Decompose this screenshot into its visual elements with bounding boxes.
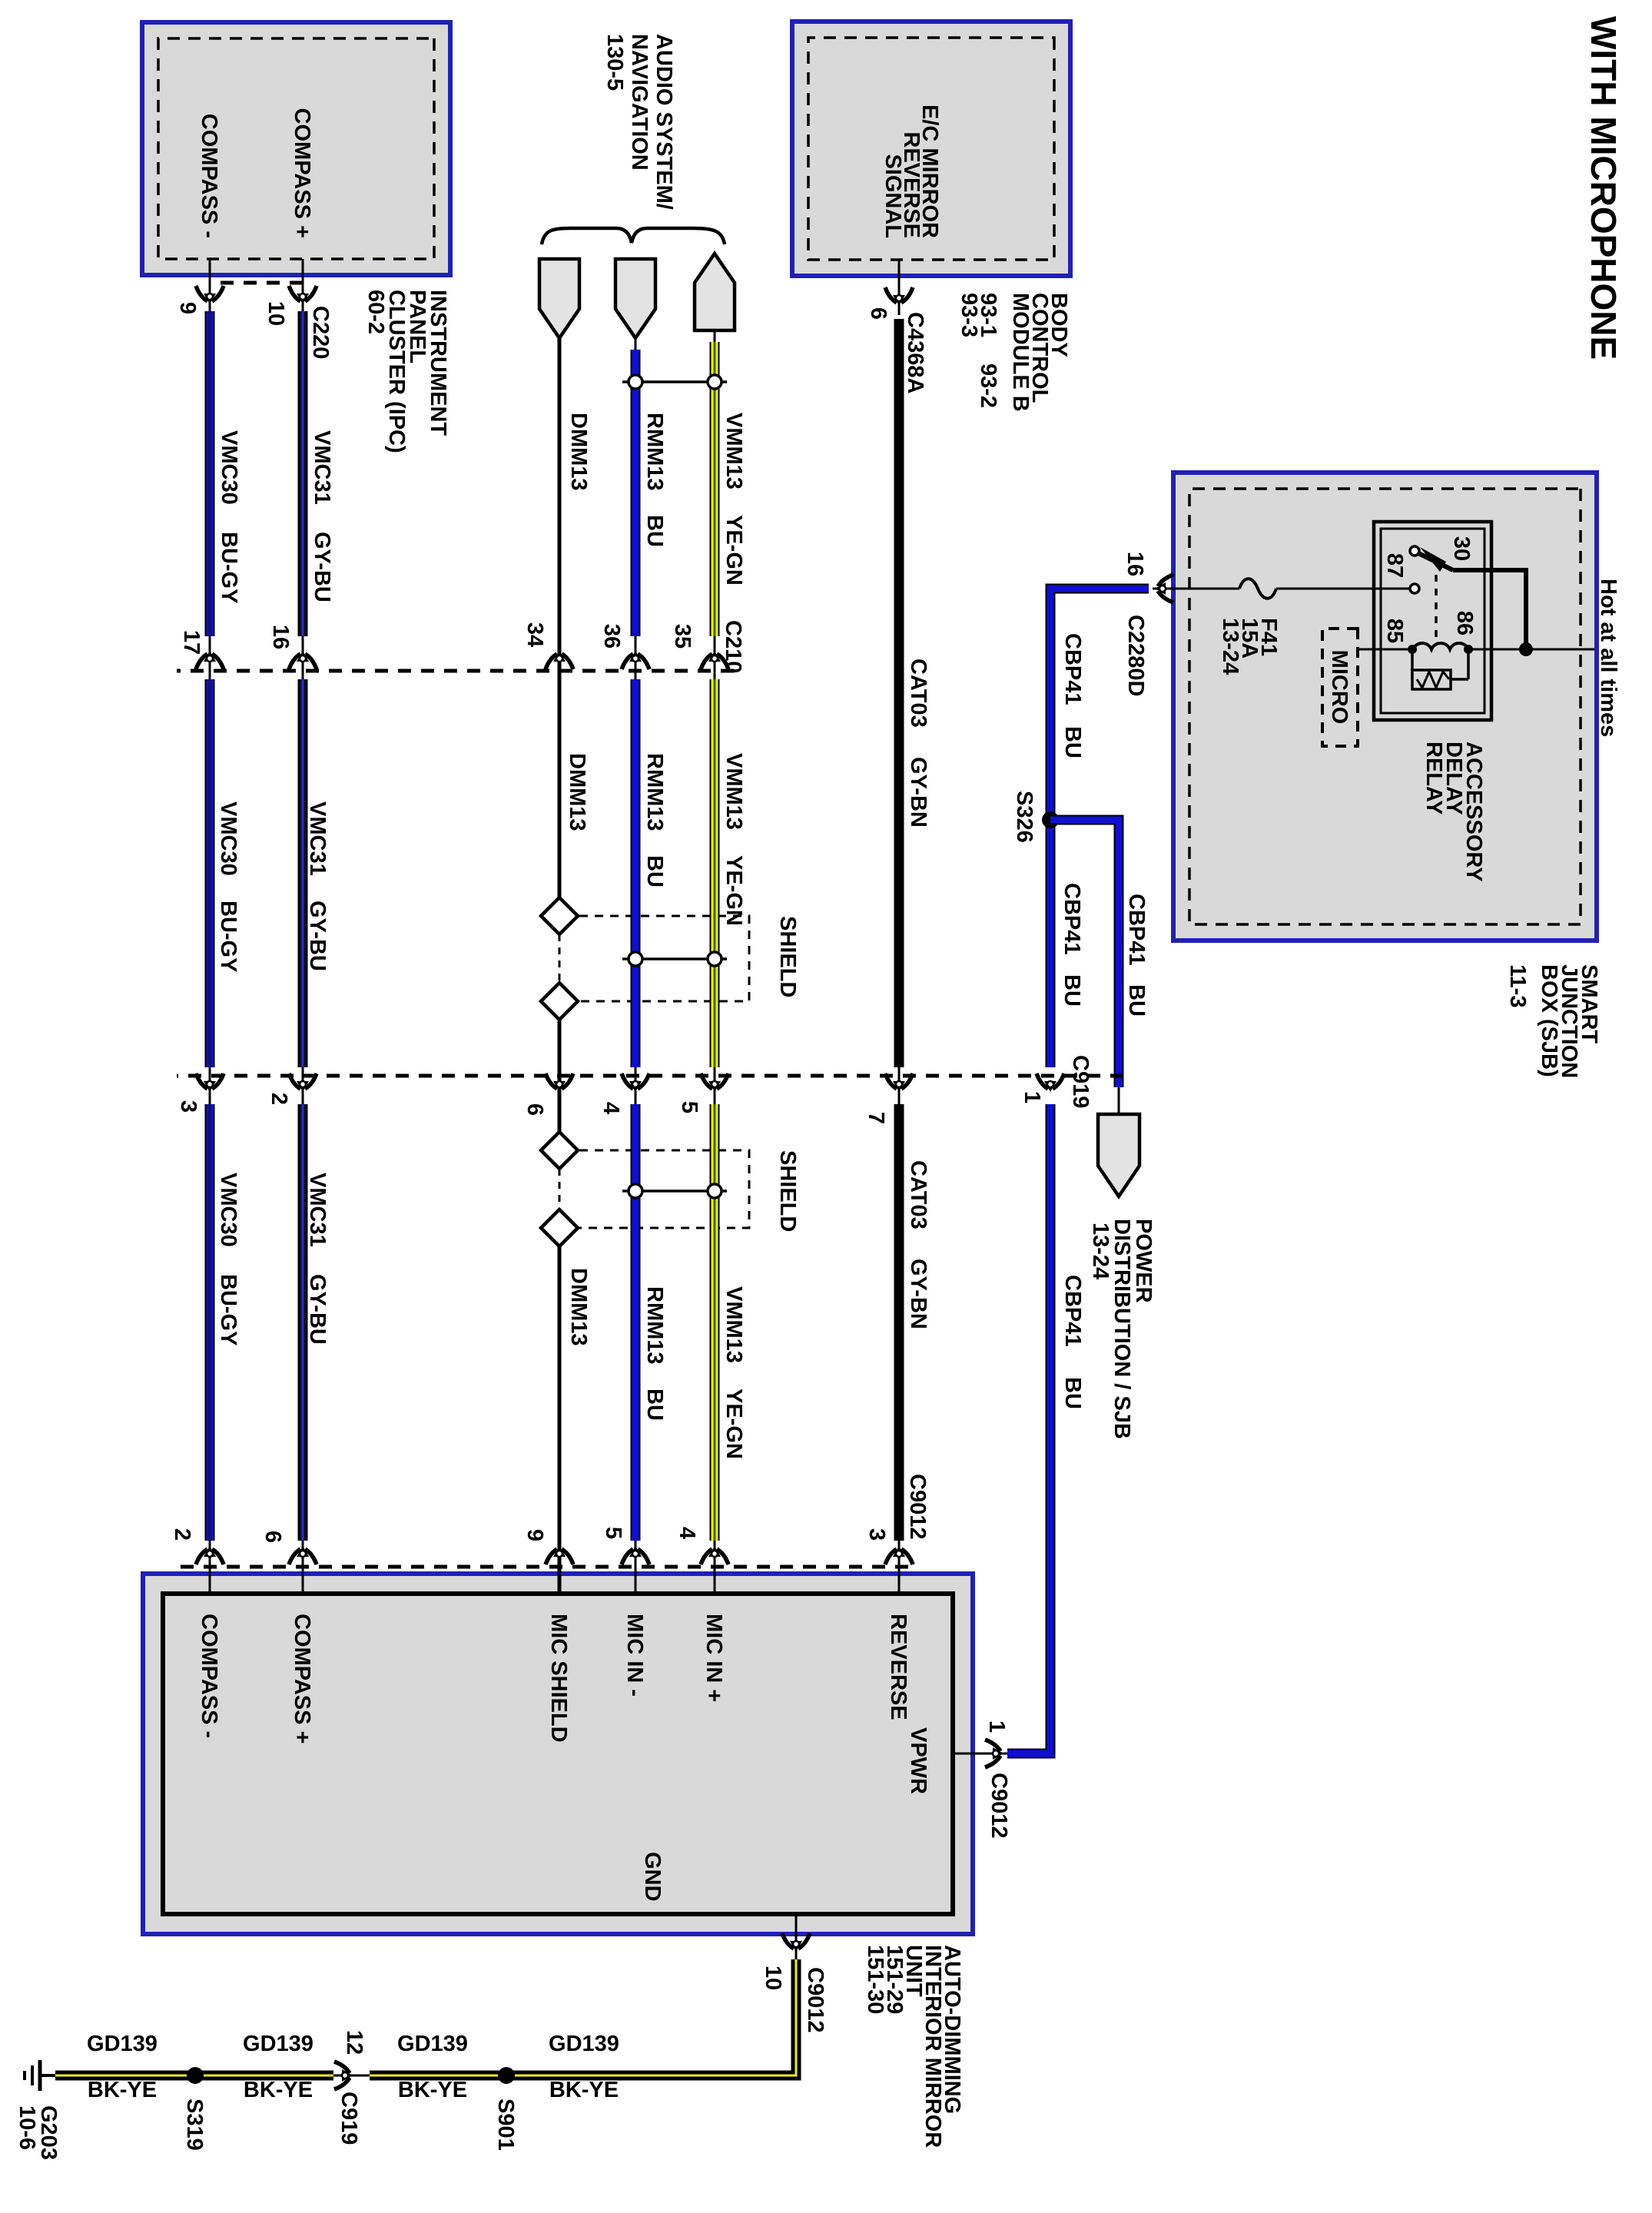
svg-text:16: 16 [268,625,293,649]
svg-text:SIGNAL: SIGNAL [881,154,905,238]
wire VMC30 BU-GY segment 2 [205,679,215,1067]
connector arrow C220 pin 10 [289,286,317,304]
svg-text:BU-GY: BU-GY [217,532,241,603]
svg-text:MODULE B: MODULE B [1008,293,1033,412]
splice S901 [498,2067,515,2084]
connector arrow C220 pin 9 [196,286,224,304]
svg-text:SHIELD: SHIELD [775,916,800,997]
svg-text:VMC30: VMC30 [216,801,241,876]
svg-text:BU: BU [1060,974,1084,1007]
wire RMM13 BU segment 3 [631,1104,641,1541]
svg-text:DMM13: DMM13 [565,753,589,831]
wire lead at C919 pin 3 [209,1067,211,1104]
relay switch blade [1417,552,1453,570]
svg-text:GY-BN: GY-BN [906,757,930,828]
wire lead into mirror pin 2 [209,1541,211,1594]
svg-text:4: 4 [599,1102,623,1114]
svg-text:1: 1 [1020,1091,1044,1103]
fuse F41 15A [1239,579,1276,599]
connector C9012 dashed line [177,1565,908,1569]
wire coil to micro [1358,649,1412,651]
connector arrow C210 pin 16 [289,651,317,669]
wire lead VPWR into mirror box [951,1753,1007,1755]
wire lead at C210 pin 17 [209,636,211,679]
wire DMM13 segment 2 [558,679,562,898]
svg-text:C9012: C9012 [803,1967,828,2032]
svg-text:16: 16 [1123,552,1147,576]
svg-text:3: 3 [176,1100,201,1113]
wire CAT03 GY-BN segment 2 [894,1104,904,1541]
wire RMM13 BU segment 2 [631,679,641,1067]
MICRO dashed box [1322,629,1358,746]
relay switch terminal 30 [1410,546,1419,556]
splice S319 [187,2067,204,2084]
svg-text:13-24: 13-24 [1218,618,1242,675]
svg-text:C919: C919 [337,2092,361,2145]
svg-text:93-3: 93-3 [957,293,981,337]
svg-text:GD139: GD139 [243,2032,313,2056]
svg-text:151-30: 151-30 [863,1945,887,2014]
svg-text:BU: BU [642,1389,667,1421]
svg-text:YE-GN: YE-GN [722,1389,746,1459]
svg-text:GND: GND [640,1852,665,1901]
connector arrow C919 pin 7 [885,1073,913,1092]
svg-text:MICRO: MICRO [1327,650,1352,725]
wire lead to power distribution connector [1118,1087,1120,1116]
connector arrow C9012 pin 3 [885,1546,913,1564]
wire lead at C919 pin 2 [302,1067,304,1104]
component box INSTRUMENT PANEL CLUSTER (IPC) [142,22,450,275]
svg-text:S319: S319 [182,2099,207,2151]
wire VMM13 YE-GN segment 2 [710,679,720,1067]
wire lead at C210 pin 16 [302,636,304,679]
svg-text:5: 5 [601,1527,625,1539]
wire lead into mirror pin 5 [635,1541,637,1594]
svg-text:GY-BU: GY-BU [305,1274,330,1345]
svg-text:MIC IN +: MIC IN + [702,1614,726,1702]
svg-text:11-3: 11-3 [1505,964,1530,1007]
wire lead into mirror pin 3 [898,1541,901,1594]
svg-text:C9012: C9012 [987,1773,1011,1838]
connector arrow C4368A pin 6 [885,287,913,306]
connector C220 dashed line [210,281,303,285]
wire relay switch to hot feed [1453,570,1526,649]
svg-text:YE-GN: YE-GN [722,855,746,926]
svg-text:CBP41: CBP41 [1060,633,1085,705]
svg-text:VMM13: VMM13 [722,1286,746,1363]
wire VMC31 GY-BU segment 3 [298,1104,308,1541]
svg-text:COMPASS -: COMPASS - [197,114,221,238]
svg-text:DMM13: DMM13 [566,413,591,491]
wire lead BCM exit [898,260,901,315]
svg-text:VMC31: VMC31 [305,1173,330,1247]
connector from audio system RMM13 [615,259,655,338]
svg-text:S901: S901 [493,2099,518,2151]
brace audio system [542,228,725,244]
svg-text:C919: C919 [1068,1055,1093,1108]
svg-text:COMPASS -: COMPASS - [197,1614,221,1738]
wire lead into mirror pin 6 [302,1541,304,1594]
svg-text:17: 17 [179,630,204,655]
wire VMC30 BU-GY segment 1 [205,311,215,636]
svg-text:C210: C210 [721,620,745,673]
relay switch terminal 87 [1410,584,1419,593]
connector arrow C9012 pin 10 [782,1933,810,1952]
connector arrow C919 pin 2 [289,1073,317,1092]
shield diamond 1 [541,897,578,934]
connector from audio system VMM13 [695,254,735,330]
svg-text:10-6: 10-6 [15,2105,39,2150]
svg-text:VMM13: VMM13 [722,753,746,830]
svg-text:85: 85 [1382,619,1407,643]
connector arrow C919 pin 4 [622,1073,649,1092]
connector from audio system DMM13 [539,259,579,338]
svg-text:BK-YE: BK-YE [88,2078,157,2102]
connector arrow C210 pin 34 [546,651,573,669]
wire lead at C919 pin 7 [898,1067,901,1104]
shield diamond 2 [541,983,578,1020]
shield drain link [622,380,727,383]
wire lead into mirror pin 4 [714,1541,716,1594]
svg-text:2: 2 [267,1093,291,1105]
svg-text:CAT03: CAT03 [906,1160,930,1229]
svg-text:GD139: GD139 [87,2032,158,2056]
wire VMM13 YE-GN segment 3 [710,1104,720,1541]
wire RMM13 BU segment 1 [631,350,641,636]
connector C919 pin 1 arrow [1037,1073,1064,1092]
connector arrow C9012 pin 9 [546,1546,573,1564]
svg-text:COMPASS +: COMPASS + [290,1614,314,1744]
svg-text:86: 86 [1452,611,1477,635]
relay coil L1 [1413,643,1468,649]
relay actuation dashed link [1435,575,1438,644]
svg-text:RMM13: RMM13 [642,753,667,831]
wire DMM13 segment 3 [558,1020,562,1104]
svg-text:VMC31: VMC31 [310,430,334,505]
svg-text:C2280D: C2280D [1123,615,1148,696]
svg-text:35: 35 [670,624,695,649]
svg-text:12: 12 [342,2030,367,2055]
junction hot feed [1519,642,1533,656]
svg-text:9: 9 [522,1529,547,1541]
connector arrow C9012 pin 2 [196,1546,224,1564]
svg-text:CBP41: CBP41 [1060,1275,1085,1347]
connector arrow C919 pin 12 [334,2062,353,2089]
svg-text:BU-GY: BU-GY [216,901,241,972]
svg-text:93-2: 93-2 [976,363,1000,408]
svg-text:VMC31: VMC31 [305,801,330,876]
svg-text:MIC IN -: MIC IN - [622,1614,647,1697]
wire VMC30 BU-GY segment 3 [205,1104,215,1541]
connector arrow C9012 pin 5 [622,1546,649,1564]
svg-text:NAVIGATION: NAVIGATION [627,34,652,171]
svg-text:6: 6 [260,1531,285,1543]
svg-text:VPWR: VPWR [906,1727,930,1794]
connector C919 dashed line [177,1074,1123,1078]
connector arrow C210 pin 17 [196,651,224,669]
svg-text:CBP41: CBP41 [1060,883,1084,955]
svg-text:4: 4 [675,1527,699,1539]
svg-text:2: 2 [170,1528,194,1541]
wire hot feed into SJB [1468,649,1594,651]
wire GD139 BK-YE to S319 [55,2071,333,2081]
svg-text:CBP41: CBP41 [1124,894,1149,966]
connector C210 dashed line [177,669,734,673]
svg-text:BK-YE: BK-YE [244,2078,313,2102]
svg-text:13-24: 13-24 [1088,1223,1113,1279]
svg-text:C4368A: C4368A [903,312,927,393]
wire pin 87 to fuse [1276,588,1410,590]
svg-text:SHIELD: SHIELD [775,1150,800,1232]
wire lead at C210 pin 36 [635,636,637,679]
svg-text:RELAY: RELAY [1421,742,1446,815]
shield drain link [622,1189,727,1193]
wire DMM13 segment 4 [558,1104,562,1132]
svg-text:VMC30: VMC30 [216,1173,241,1247]
connector arrow C9012 pin 4 [701,1546,728,1564]
wire lead at chain connector C919 [333,2075,370,2077]
shield diamond 4 [541,1209,578,1246]
svg-text:30: 30 [1449,536,1474,561]
svg-text:10: 10 [264,301,288,326]
shield drain link [622,957,727,961]
svg-text:6: 6 [522,1103,547,1116]
svg-text:WITH MICROPHONE: WITH MICROPHONE [1584,16,1624,360]
connector arrow C919 pin 3 [196,1073,224,1092]
accessory delay relay box [1374,522,1491,720]
shield dashed bracket 2 [579,1150,749,1228]
svg-text:MIC SHIELD: MIC SHIELD [546,1614,571,1743]
wire lead IPC COMPASS - exit [209,259,211,313]
svg-text:GY-BU: GY-BU [310,532,334,602]
ground G203 [40,2074,55,2077]
svg-text:10: 10 [761,1966,785,1990]
wire DMM13 shield dashed gap 2 [559,1169,561,1209]
svg-text:BU: BU [1060,1377,1085,1409]
svg-text:BK-YE: BK-YE [549,2078,619,2102]
wire CAT03 GY-BN segment 1 [894,319,904,1067]
svg-text:7: 7 [864,1112,888,1124]
wire DMM13 segment 1 [558,338,562,679]
svg-text:GD139: GD139 [397,2032,468,2056]
svg-text:CAT03: CAT03 [906,659,930,728]
wire CBP41 BU from C2280D to S326 to mirror elbow [1050,589,1149,1067]
svg-text:REVERSE: REVERSE [886,1614,911,1720]
svg-text:C220: C220 [308,306,333,359]
connector arrow C9012 pin 1 VPWR [985,1740,1003,1767]
shield diamond 3 [541,1132,578,1169]
svg-text:60-2: 60-2 [363,290,388,334]
wire lead VMM13 [714,330,716,346]
svg-text:GY-BN: GY-BN [906,1259,930,1329]
connector arrow C919 pin 5 [701,1073,728,1092]
shield dashed bracket 1 [579,916,749,1001]
connector arrow C9012 pin 6 [289,1546,317,1564]
svg-text:RMM13: RMM13 [642,1286,667,1365]
svg-text:5: 5 [677,1101,702,1113]
wire GD139 BK-YE elbow from GND [370,1959,796,2075]
svg-text:VMC30: VMC30 [217,430,241,505]
wire lead RMM13 [635,338,637,353]
component box SMART JUNCTION BOX (SJB) [1173,473,1597,941]
svg-text:YE-GN: YE-GN [722,515,746,586]
svg-text:BU: BU [642,515,667,547]
svg-text:BU-GY: BU-GY [216,1274,241,1345]
relay suppression resistor R1 [1411,649,1414,679]
svg-text:Hot at all times: Hot at all times [1596,579,1620,737]
wire CBP41 BU from C919 to mirror VPWR [1007,1104,1050,1753]
svg-text:36: 36 [599,624,624,649]
svg-text:DMM13: DMM13 [566,1268,591,1346]
svg-text:9: 9 [175,302,200,314]
svg-text:87: 87 [1382,553,1407,578]
svg-text:1: 1 [984,1720,1009,1733]
svg-text:BU: BU [1060,726,1085,758]
svg-text:VMM13: VMM13 [722,413,746,489]
svg-text:34: 34 [522,622,547,647]
svg-text:GD139: GD139 [549,2032,619,2056]
component box AUTO-DIMMING INTERIOR MIRROR UNIT [143,1574,973,1934]
wire fuse to connector C2280D [1153,588,1239,590]
connector arrow C210 pin 35 [701,651,728,669]
svg-text:BK-YE: BK-YE [398,2078,467,2102]
svg-text:AUDIO SYSTEM/: AUDIO SYSTEM/ [652,34,676,210]
wire VMC31 GY-BU segment 2 [298,679,308,1067]
wire CBP41 BU branch to power distribution [1050,820,1119,1087]
wire VMC31 GY-BU segment 1 [298,311,308,636]
svg-text:S326: S326 [1012,791,1037,843]
svg-text:BU: BU [1124,984,1149,1017]
component box BODY CONTROL MODULE B [792,22,1070,276]
wire DMM13 shield dashed gap 1 [559,934,561,983]
svg-text:BU: BU [642,855,667,888]
wire lead at C919 pin 4 [635,1067,637,1104]
connector arrow C210 pin 36 [622,651,649,669]
wire lead GND out of mirror [795,1914,798,1962]
svg-text:COMPASS +: COMPASS + [290,108,314,238]
svg-text:BOX (SJB): BOX (SJB) [1537,964,1561,1077]
connector arrow C919 pin 6 [546,1073,573,1092]
svg-text:C9012: C9012 [905,1474,930,1539]
svg-text:3: 3 [864,1528,889,1541]
splice S326 [1042,811,1059,828]
wire DMM13 segment 5 [558,1246,562,1594]
connector arrow C2280D pin 16 [1155,575,1173,602]
svg-text:GY-BU: GY-BU [305,901,330,971]
wire lead at C210 pin 35 [714,636,716,679]
svg-text:6: 6 [866,307,891,320]
wire VMM13 YE-GN segment 1 [710,342,720,636]
wire lead at C919 pin 5 [714,1067,716,1104]
wire lead IPC COMPASS + exit [302,259,304,313]
svg-text:130-5: 130-5 [602,34,627,91]
connector to POWER DISTRIBUTION / SJB [1098,1114,1139,1196]
svg-text:RMM13: RMM13 [642,413,667,491]
